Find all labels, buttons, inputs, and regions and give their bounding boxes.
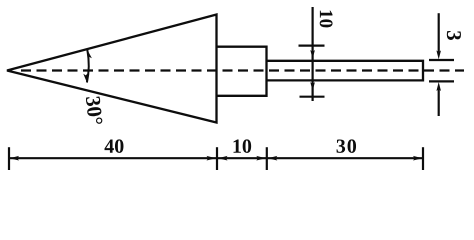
arc arrow bottom (83, 73, 88, 82)
dim 3 bottom tick (429, 80, 454, 82)
label 30 horizontal (337, 139, 356, 153)
arrow left end 10 (218, 156, 228, 161)
label 10 horizontal (234, 139, 252, 153)
arc arrow top (87, 50, 92, 60)
tick x267 (266, 147, 268, 170)
label 30deg (86, 96, 103, 125)
dim 10 vertical line (312, 7, 314, 101)
label 40 (105, 139, 124, 153)
dim 10 top tick (299, 44, 325, 46)
arrow right end 10 (256, 156, 266, 161)
arrow left end 30 (268, 156, 278, 161)
arrow right end 40 (207, 156, 217, 161)
dim 10 bottom tick (300, 96, 325, 98)
dim 10 lower arrow (310, 82, 315, 91)
label 3 vertical (447, 31, 461, 40)
arrow right end 30 (413, 156, 423, 161)
angle arc 30deg (87, 50, 89, 83)
dim 3 upper arrow (436, 50, 441, 59)
collar cylinder (217, 47, 267, 96)
dim 3 upper line (438, 13, 440, 52)
dim 3 lower arrow (436, 82, 441, 91)
dim 3 lower line (438, 89, 440, 116)
tick x9 (8, 147, 10, 170)
tick x217 (216, 147, 218, 170)
dim 3 top tick (429, 59, 454, 61)
tick x423 (422, 147, 424, 170)
bottom dimension line (9, 157, 423, 159)
cone body (7, 15, 217, 123)
label 10 vertical (320, 11, 333, 28)
arrow left end 40 (10, 156, 20, 161)
shaft cylinder (267, 61, 424, 81)
centerline axis (dashed) (21, 69, 464, 71)
dim 10 upper arrow (310, 50, 315, 59)
